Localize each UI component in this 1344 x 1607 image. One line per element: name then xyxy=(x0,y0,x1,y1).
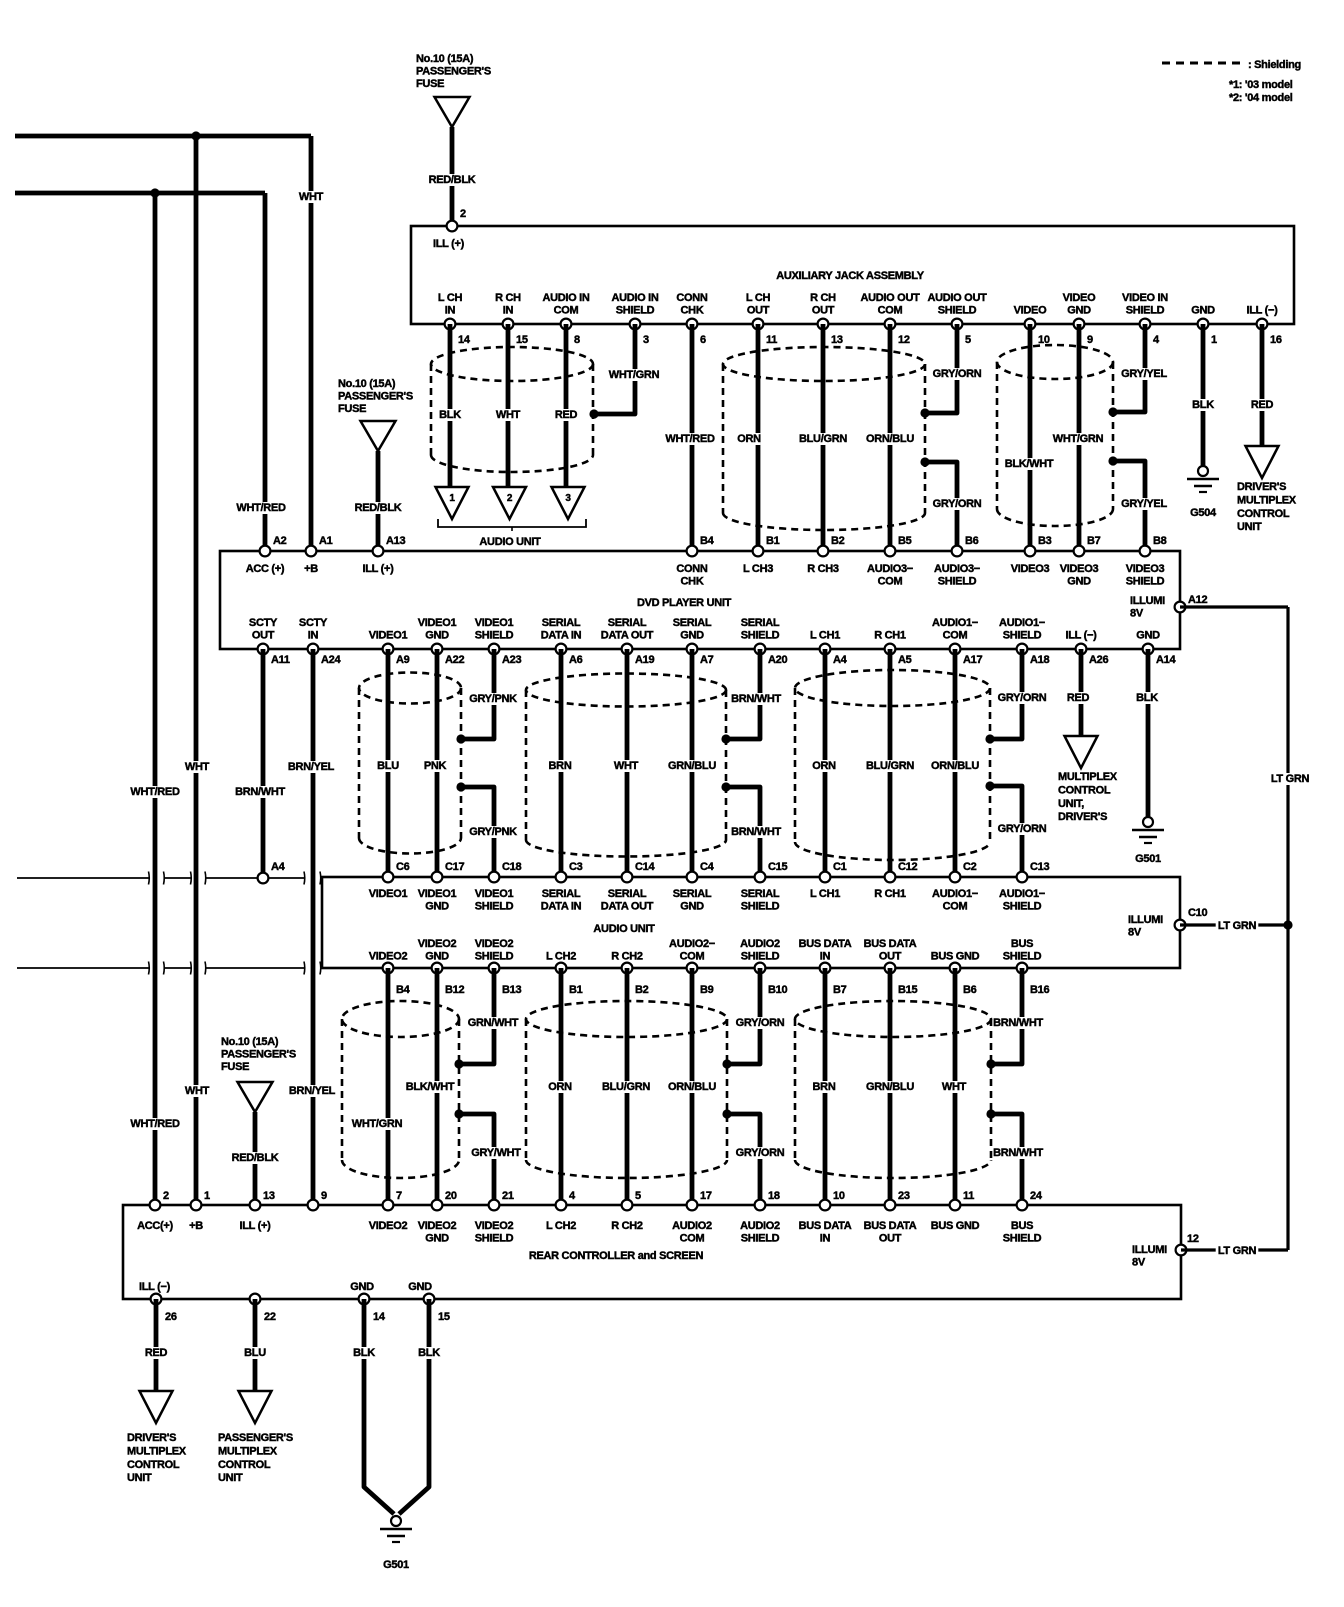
svg-text:SHIELD: SHIELD xyxy=(1126,576,1165,588)
wire LT GRN rear illumi xyxy=(1181,1248,1288,1251)
svg-text:1: 1 xyxy=(1211,334,1217,346)
svg-text:15: 15 xyxy=(438,1311,450,1323)
svg-text:SERIAL: SERIAL xyxy=(542,888,581,900)
svg-text:REAR CONTROLLER and SCREEN: REAR CONTROLLER and SCREEN xyxy=(529,1250,704,1262)
svg-text:ILL (−): ILL (−) xyxy=(1065,630,1097,642)
label BRN/YEL lower xyxy=(287,1085,336,1097)
svg-text:WHT: WHT xyxy=(299,191,324,203)
svg-text:RED/BLK: RED/BLK xyxy=(355,502,402,514)
svg-text:SHIELD: SHIELD xyxy=(938,576,977,588)
wire BRN bus data in xyxy=(823,968,828,1205)
svg-text:BUS GND: BUS GND xyxy=(931,1220,980,1232)
svg-text:8V: 8V xyxy=(1128,927,1142,939)
label WHT/RED lower xyxy=(130,1118,179,1130)
svg-text:GRN/BLU: GRN/BLU xyxy=(668,760,716,772)
svg-text:SHIELD: SHIELD xyxy=(1003,1233,1042,1245)
rear top pin 9 scty xyxy=(308,1200,319,1211)
svg-text:GND: GND xyxy=(680,901,704,913)
DVD top pin B4 CONN CHK xyxy=(687,546,698,557)
node shield dot audio2 lower xyxy=(722,1109,731,1118)
svg-text:C15: C15 xyxy=(768,861,787,873)
svg-text:GRN/WHT: GRN/WHT xyxy=(468,1017,519,1029)
svg-text:A2: A2 xyxy=(273,535,287,547)
svg-text:VIDEO1: VIDEO1 xyxy=(418,888,457,900)
svg-text:GRY/ORN: GRY/ORN xyxy=(736,1147,785,1159)
svg-text:VIDEO1: VIDEO1 xyxy=(418,617,457,629)
svg-text:13: 13 xyxy=(263,1190,275,1202)
svg-text:R CH1: R CH1 xyxy=(874,630,906,642)
svg-text:A22: A22 xyxy=(445,654,464,666)
wire WHT bus gnd xyxy=(953,968,958,1205)
svg-text:ILLUMI: ILLUMI xyxy=(1130,595,1165,607)
wire BRN/WHT serial shield lower xyxy=(726,787,760,877)
fuse F2 connector triangle xyxy=(361,421,396,451)
svg-text:L CH: L CH xyxy=(746,292,771,304)
wire GRY/YEL VIDEO IN SHIELD upper xyxy=(1113,324,1145,412)
svg-text:9: 9 xyxy=(321,1190,327,1202)
svg-text:C18: C18 xyxy=(502,861,521,873)
svg-text:RED: RED xyxy=(555,409,578,421)
svg-text:DATA IN: DATA IN xyxy=(541,630,582,642)
svg-text:B1: B1 xyxy=(569,984,583,996)
shield cylinder dvd video1 xyxy=(359,673,461,704)
rear top pin 2 ACC(+) xyxy=(150,1200,161,1211)
svg-text:CONTROL: CONTROL xyxy=(1237,508,1290,520)
shield cylinder dvd audio1 xyxy=(795,670,990,706)
audio top pin C18 VIDEO1 SHIELD xyxy=(489,872,500,883)
svg-text:SHIELD: SHIELD xyxy=(1003,630,1042,642)
svg-text:21: 21 xyxy=(502,1190,514,1202)
wire RED aux AUDIO IN COM xyxy=(564,324,569,487)
svg-text:*2: '04 model: *2: '04 model xyxy=(1229,92,1293,104)
wire WHT vertical to DVD A1 xyxy=(309,136,314,551)
svg-text:WHT/GRN: WHT/GRN xyxy=(609,369,660,381)
svg-text:BUS GND: BUS GND xyxy=(931,951,980,963)
svg-text:RED: RED xyxy=(1251,399,1274,411)
svg-text:16: 16 xyxy=(1270,334,1282,346)
connector triangle 1 audio unit xyxy=(436,487,469,519)
node shield dot audio-out upper xyxy=(920,408,929,417)
node shield dot audio-in xyxy=(589,409,598,418)
svg-text:AUDIO IN: AUDIO IN xyxy=(611,292,658,304)
svg-text:GND: GND xyxy=(425,901,449,913)
node shield dot bus lower xyxy=(986,1109,995,1118)
svg-text:B4: B4 xyxy=(396,984,411,996)
svg-text:A18: A18 xyxy=(1030,654,1049,666)
svg-text:OUT: OUT xyxy=(879,1233,902,1245)
svg-text:BLU/GRN: BLU/GRN xyxy=(602,1081,650,1093)
svg-text:UNIT,: UNIT, xyxy=(1058,798,1084,810)
wire RED/BLK fuse3 to rear pin 13 xyxy=(253,1112,258,1205)
svg-text:BRN/YEL: BRN/YEL xyxy=(289,1085,336,1097)
ground G504 xyxy=(1198,466,1208,476)
svg-text:PASSENGER'S: PASSENGER'S xyxy=(218,1432,293,1444)
svg-text:AUDIO3−: AUDIO3− xyxy=(934,563,980,575)
aux pin 2 ILL+ xyxy=(447,221,458,232)
svg-text:RED/BLK: RED/BLK xyxy=(429,174,476,186)
wire BLK dvd GND xyxy=(1146,649,1151,817)
label WHT lower xyxy=(186,1085,209,1097)
shield cylinder aux audio-out xyxy=(723,347,925,381)
svg-text:GRY/WHT: GRY/WHT xyxy=(471,1147,521,1159)
wire WHT/RED conn chk xyxy=(690,324,695,551)
node junction ACC/WHT-RED xyxy=(150,188,159,197)
svg-text:ILL (+): ILL (+) xyxy=(239,1220,271,1232)
svg-text:FUSE: FUSE xyxy=(416,78,444,90)
svg-text:R CH: R CH xyxy=(810,292,836,304)
wire thin horizontal lower xyxy=(17,967,149,969)
svg-text:B12: B12 xyxy=(445,984,464,996)
svg-text:AUDIO1−: AUDIO1− xyxy=(932,617,978,629)
wire GRY/ORN audio2 shield upper xyxy=(727,968,760,1064)
svg-text:WHT/RED: WHT/RED xyxy=(130,1118,180,1130)
svg-text:VIDEO1: VIDEO1 xyxy=(369,630,408,642)
svg-text:IN: IN xyxy=(503,305,514,317)
svg-text:A19: A19 xyxy=(635,654,654,666)
node shield dot video lower xyxy=(1108,456,1117,465)
audio top pin C4 SERIAL GND xyxy=(687,872,698,883)
node shield dot bus upper xyxy=(986,1059,995,1068)
wire BLU/GRN R CH OUT xyxy=(821,324,826,551)
svg-text:SHIELD: SHIELD xyxy=(741,630,780,642)
wire WHT/GRN video2 xyxy=(386,968,391,1205)
rear top pin 11 BUS GND xyxy=(950,1200,961,1211)
svg-text:BLU: BLU xyxy=(244,1347,266,1359)
svg-text:RED: RED xyxy=(1067,692,1090,704)
svg-text:2: 2 xyxy=(507,493,513,504)
svg-text:BUS: BUS xyxy=(1011,938,1033,950)
svg-text:C17: C17 xyxy=(445,861,464,873)
rear top pin 1 +B xyxy=(191,1200,202,1211)
rear top pin 17 AUDIO2 COM xyxy=(687,1200,698,1211)
svg-text:A23: A23 xyxy=(502,654,521,666)
DVD top pin A13 ILL (+) xyxy=(373,546,384,557)
svg-text:B1: B1 xyxy=(766,535,780,547)
node shield dot audio-out lower xyxy=(920,457,929,466)
svg-text:BLK: BLK xyxy=(439,409,461,421)
wire ORN/BLU audio2 com xyxy=(690,968,695,1205)
svg-text:L CH3: L CH3 xyxy=(743,563,773,575)
svg-text:13: 13 xyxy=(831,334,843,346)
svg-text:SERIAL: SERIAL xyxy=(542,617,581,629)
svg-text:SHIELD: SHIELD xyxy=(741,901,780,913)
svg-text:GND: GND xyxy=(408,1281,432,1293)
svg-text:PASSENGER'S: PASSENGER'S xyxy=(338,391,413,403)
svg-text:DRIVER'S: DRIVER'S xyxy=(1058,811,1107,823)
label RED/BLK fuse1 xyxy=(427,174,476,186)
node shield dot video1 lower xyxy=(456,782,465,791)
svg-text:GND: GND xyxy=(1191,305,1215,317)
svg-text:26: 26 xyxy=(165,1311,177,1323)
svg-text:COM: COM xyxy=(943,901,968,913)
svg-text:BLK: BLK xyxy=(1136,692,1158,704)
svg-text:VIDEO2: VIDEO2 xyxy=(369,1220,408,1232)
svg-text:A14: A14 xyxy=(1156,654,1176,666)
svg-text:R CH2: R CH2 xyxy=(611,951,643,963)
svg-text:B8: B8 xyxy=(1153,535,1167,547)
wire BLK aux GND xyxy=(1201,324,1206,466)
svg-text:L CH2: L CH2 xyxy=(546,951,576,963)
svg-text:B4: B4 xyxy=(700,535,715,547)
svg-text:AUDIO2: AUDIO2 xyxy=(740,1220,780,1232)
svg-text:SCTY: SCTY xyxy=(299,617,328,629)
svg-text:9: 9 xyxy=(1087,334,1093,346)
svg-text:ORN: ORN xyxy=(548,1081,572,1093)
DVD top pin B2 R CH3 xyxy=(818,546,829,557)
audio top pin C2 AUDIO1− COM xyxy=(950,872,961,883)
svg-text:OUT: OUT xyxy=(252,630,275,642)
svg-text:AUDIO OUT: AUDIO OUT xyxy=(927,292,987,304)
svg-text:COM: COM xyxy=(878,305,903,317)
svg-text:B15: B15 xyxy=(898,984,917,996)
svg-text:DRIVER'S: DRIVER'S xyxy=(127,1432,176,1444)
node shield dot serial upper xyxy=(721,734,730,743)
svg-text:PASSENGER'S: PASSENGER'S xyxy=(221,1049,296,1061)
wire BLU/GRN r ch2 xyxy=(625,968,630,1205)
svg-text:ILL (+): ILL (+) xyxy=(433,238,465,250)
wire BRN/WHT bus shield lower xyxy=(991,1114,1022,1205)
svg-text:BRN/YEL: BRN/YEL xyxy=(288,761,335,773)
svg-text:VIDEO: VIDEO xyxy=(1014,305,1047,317)
wire BLK/WHT video2 gnd xyxy=(435,968,440,1205)
svg-text:17: 17 xyxy=(700,1190,712,1202)
svg-text:BUS DATA: BUS DATA xyxy=(864,938,917,950)
svg-text:VIDEO3: VIDEO3 xyxy=(1011,563,1050,575)
svg-text:LT GRN: LT GRN xyxy=(1218,1245,1257,1257)
shield cylinder rear audio2 xyxy=(526,1001,727,1037)
svg-text:C14: C14 xyxy=(635,861,655,873)
svg-text:B7: B7 xyxy=(833,984,847,996)
svg-text:VIDEO2: VIDEO2 xyxy=(418,938,457,950)
svg-text:A12: A12 xyxy=(1188,594,1207,606)
svg-text:1: 1 xyxy=(204,1190,210,1202)
connector triangle 2 audio unit xyxy=(493,487,526,519)
svg-text:AUDIO1−: AUDIO1− xyxy=(999,617,1045,629)
ground G501 dvd xyxy=(1143,817,1153,827)
svg-text:AUXILIARY JACK ASSEMBLY: AUXILIARY JACK ASSEMBLY xyxy=(776,270,924,282)
svg-text:BLU/GRN: BLU/GRN xyxy=(866,760,914,772)
svg-text:GND: GND xyxy=(425,630,449,642)
shield cylinder aux audio-in xyxy=(431,347,593,381)
rear bottom pin 15 xyxy=(424,1294,435,1305)
fuse F1 connector triangle xyxy=(435,97,470,127)
svg-text:IN: IN xyxy=(820,1233,831,1245)
svg-text:GND: GND xyxy=(680,630,704,642)
wire ORN/BLU AUDIO OUT COM xyxy=(888,324,893,551)
DVD top pin B8 VIDEO3 SHIELD xyxy=(1140,546,1151,557)
svg-text:SERIAL: SERIAL xyxy=(673,617,712,629)
wire WHT +B feed horizontal xyxy=(15,134,311,139)
svg-text:PASSENGER'S: PASSENGER'S xyxy=(416,66,491,78)
svg-text:GRY/PNK: GRY/PNK xyxy=(469,826,517,838)
rear bottom pin 14 xyxy=(359,1294,370,1305)
svg-text:A24: A24 xyxy=(321,654,341,666)
svg-text:DATA IN: DATA IN xyxy=(541,901,582,913)
label LT GRN vertical xyxy=(1269,773,1312,785)
wire RED rear ILL- to drivers multiplex xyxy=(154,1299,159,1391)
svg-text:WHT: WHT xyxy=(496,409,521,421)
wire GRN/BLU bus data out xyxy=(888,968,893,1205)
DVD top pin B6 AUDIO3− SHIELD xyxy=(952,546,963,557)
DVD top pin A2 ACC (+) xyxy=(260,546,271,557)
label WHT/RED for A2 wire xyxy=(236,502,285,514)
audio top pin C14 SERIAL DATA OUT xyxy=(622,872,633,883)
svg-text:COM: COM xyxy=(680,1233,705,1245)
svg-text:5: 5 xyxy=(635,1190,641,1202)
svg-text:PNK: PNK xyxy=(424,760,447,772)
svg-text:GRY/ORN: GRY/ORN xyxy=(933,368,982,380)
rear bottom pin 22 xyxy=(250,1294,261,1305)
svg-text:BRN/WHT: BRN/WHT xyxy=(731,693,781,705)
rear top pin 23 BUS DATA OUT xyxy=(885,1200,896,1211)
svg-text:SHIELD: SHIELD xyxy=(1003,951,1042,963)
svg-text:G501: G501 xyxy=(1135,853,1161,865)
svg-text:AUDIO OUT: AUDIO OUT xyxy=(860,292,920,304)
svg-text:WHT: WHT xyxy=(614,760,639,772)
svg-text:R CH1: R CH1 xyxy=(874,888,906,900)
svg-text:SCTY: SCTY xyxy=(249,617,278,629)
svg-text:AUDIO1−: AUDIO1− xyxy=(932,888,978,900)
DVD player unit box xyxy=(220,551,1180,649)
svg-text:VIDEO2: VIDEO2 xyxy=(418,1220,457,1232)
svg-text:R CH3: R CH3 xyxy=(807,563,839,575)
DVD top pin B3 VIDEO3 xyxy=(1025,546,1036,557)
node shield dot serial lower xyxy=(721,782,730,791)
svg-text:C10: C10 xyxy=(1188,907,1207,919)
svg-text:GRY/PNK: GRY/PNK xyxy=(469,693,517,705)
svg-text:6: 6 xyxy=(700,334,706,346)
svg-text:SERIAL: SERIAL xyxy=(608,617,647,629)
svg-text:A4: A4 xyxy=(833,654,848,666)
svg-text:8V: 8V xyxy=(1132,1257,1146,1269)
svg-text:CHK: CHK xyxy=(681,305,704,317)
svg-text:GND: GND xyxy=(1067,576,1091,588)
DVD top pin A1 +B xyxy=(306,546,317,557)
svg-text:AUDIO UNIT: AUDIO UNIT xyxy=(593,923,655,935)
node shield dot video2 upper xyxy=(454,1059,463,1068)
svg-text:VIDEO3: VIDEO3 xyxy=(1126,563,1165,575)
svg-text:C1: C1 xyxy=(833,861,847,873)
rear top pin 7 VIDEO2 xyxy=(383,1200,394,1211)
svg-text:BUS DATA: BUS DATA xyxy=(799,1220,852,1232)
svg-text:SHIELD: SHIELD xyxy=(1126,305,1165,317)
audio top pin C12 R CH1 xyxy=(885,872,896,883)
svg-text:11: 11 xyxy=(766,334,777,346)
svg-text:GND: GND xyxy=(425,951,449,963)
svg-text:VIDEO2: VIDEO2 xyxy=(475,1220,514,1232)
wire WHT/RED branch vertical to pin 2 xyxy=(153,193,158,1205)
svg-text:MULTIPLEX: MULTIPLEX xyxy=(1058,771,1118,783)
svg-text:B10: B10 xyxy=(768,984,787,996)
svg-text:GRY/YEL: GRY/YEL xyxy=(1121,368,1167,380)
connector triangle 3 audio unit xyxy=(552,487,585,519)
svg-text:B9: B9 xyxy=(700,984,714,996)
svg-text:B3: B3 xyxy=(1038,535,1052,547)
svg-text:AUDIO3−: AUDIO3− xyxy=(867,563,913,575)
svg-text:IN: IN xyxy=(445,305,456,317)
DVD top pin B7 VIDEO3 GND xyxy=(1074,546,1085,557)
rear top pin 21 VIDEO2 SHIELD xyxy=(489,1200,500,1211)
svg-text:BLK/WHT: BLK/WHT xyxy=(406,1081,455,1093)
svg-text:OUT: OUT xyxy=(879,951,902,963)
svg-text:CONTROL: CONTROL xyxy=(127,1459,180,1471)
DVD top pin B5 AUDIO3− COM xyxy=(885,546,896,557)
svg-text:SHIELD: SHIELD xyxy=(475,1233,514,1245)
wire thin horizontal upper to A4 xyxy=(17,877,149,879)
svg-text:G504: G504 xyxy=(1190,507,1217,519)
audio top pin C6 VIDEO1 xyxy=(383,872,394,883)
svg-text:8: 8 xyxy=(574,334,580,346)
svg-text:LT GRN: LT GRN xyxy=(1218,920,1257,932)
svg-text:DATA OUT: DATA OUT xyxy=(601,630,654,642)
wire BLU video1 xyxy=(386,649,391,877)
audio unit box xyxy=(322,877,1180,968)
svg-text:SHIELD: SHIELD xyxy=(475,951,514,963)
svg-text:C12: C12 xyxy=(898,861,917,873)
rear bottom pin 26 xyxy=(151,1294,162,1305)
wire ORN l ch2 xyxy=(559,968,564,1205)
svg-text:ACC (+): ACC (+) xyxy=(246,563,285,575)
wire ORN l ch1 xyxy=(823,649,828,877)
svg-text:B16: B16 xyxy=(1030,984,1049,996)
svg-text:A6: A6 xyxy=(569,654,583,666)
svg-text:VIDEO1: VIDEO1 xyxy=(369,888,408,900)
svg-text:AUDIO1−: AUDIO1− xyxy=(999,888,1045,900)
svg-text:14: 14 xyxy=(458,334,471,346)
wire BRN/WHT serial shield upper xyxy=(726,649,760,739)
svg-text:BRN: BRN xyxy=(549,760,572,772)
wire GRY/PNK video1 shield lower xyxy=(461,787,494,877)
svg-text:WHT/RED: WHT/RED xyxy=(665,433,715,445)
svg-text:SHIELD: SHIELD xyxy=(741,951,780,963)
svg-text:BLU: BLU xyxy=(377,760,399,772)
svg-text:RED/BLK: RED/BLK xyxy=(232,1152,279,1164)
svg-text:A26: A26 xyxy=(1089,654,1108,666)
wire GRY/ORN audio1 shield upper xyxy=(990,649,1022,739)
svg-text:WHT: WHT xyxy=(942,1081,967,1093)
svg-text:GRN/BLU: GRN/BLU xyxy=(866,1081,914,1093)
svg-text:B5: B5 xyxy=(898,535,912,547)
DVD top pin B1 L CH3 xyxy=(753,546,764,557)
svg-text:AUDIO2: AUDIO2 xyxy=(740,938,780,950)
svg-text:COM: COM xyxy=(943,630,968,642)
svg-text:IN: IN xyxy=(308,630,319,642)
svg-text:BRN/WHT: BRN/WHT xyxy=(993,1017,1043,1029)
svg-text:A7: A7 xyxy=(700,654,714,666)
svg-text:BUS DATA: BUS DATA xyxy=(799,938,852,950)
svg-text:RED: RED xyxy=(145,1347,168,1359)
svg-text:A11: A11 xyxy=(271,654,290,666)
wire PNK video1 gnd xyxy=(435,649,440,877)
node shield dot audio2 upper xyxy=(722,1059,731,1068)
svg-text:ACC(+): ACC(+) xyxy=(137,1220,173,1232)
svg-text:C4: C4 xyxy=(700,861,715,873)
svg-text:A1: A1 xyxy=(319,535,333,547)
svg-text:ILL (−): ILL (−) xyxy=(1246,305,1278,317)
wire GRY/YEL VIDEO3 SHIELD lower xyxy=(1113,461,1145,551)
node pin A4 connector xyxy=(258,873,269,884)
wire BLK/WHT VIDEO xyxy=(1028,324,1033,551)
svg-text:20: 20 xyxy=(445,1190,457,1202)
svg-text:VIDEO2: VIDEO2 xyxy=(475,938,514,950)
svg-text:CONN: CONN xyxy=(676,292,708,304)
svg-text:A5: A5 xyxy=(898,654,912,666)
svg-text:MULTIPLEX: MULTIPLEX xyxy=(1237,494,1297,506)
svg-text:OUT: OUT xyxy=(812,305,835,317)
shield cylinder rear bus xyxy=(795,1001,991,1037)
wire WHT/RED vertical to DVD A2 xyxy=(263,193,268,551)
svg-text:C6: C6 xyxy=(396,861,410,873)
